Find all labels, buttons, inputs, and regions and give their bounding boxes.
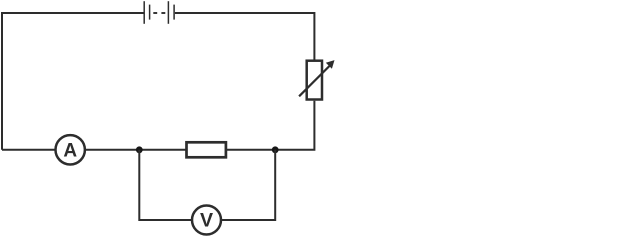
battery B1 cell 1 long plate — [143, 1, 145, 24]
wire voltmeter to right junction — [222, 150, 276, 220]
node junction right — [272, 146, 279, 153]
rheostat R2 arrow — [299, 66, 330, 97]
wire ammeter to resistor — [85, 149, 186, 151]
wire resistor to right junction — [227, 149, 275, 151]
wire top-left horizontal (left rail to battery) — [2, 13, 144, 150]
svg-text:A: A — [63, 140, 77, 161]
battery B1 dashed link — [153, 12, 157, 14]
wire bottom-left rail to ammeter — [2, 149, 55, 151]
wire battery to top-right corner and down to rheostat — [175, 13, 315, 60]
voltmeter V1 — [192, 206, 221, 235]
svg-text:V: V — [200, 210, 213, 232]
rheostat R2 body — [307, 61, 322, 100]
battery B1 cell 2 long plate — [167, 1, 169, 24]
wire rheostat to bottom-right corner — [275, 101, 314, 150]
ammeter A1 — [55, 135, 84, 164]
node junction left — [136, 146, 143, 153]
resistor R1 body — [187, 142, 226, 157]
battery B1 cell 1 short plate — [149, 5, 151, 20]
battery B1 cell 2 short plate — [173, 5, 175, 20]
wire left junction down to voltmeter branch — [139, 150, 191, 220]
